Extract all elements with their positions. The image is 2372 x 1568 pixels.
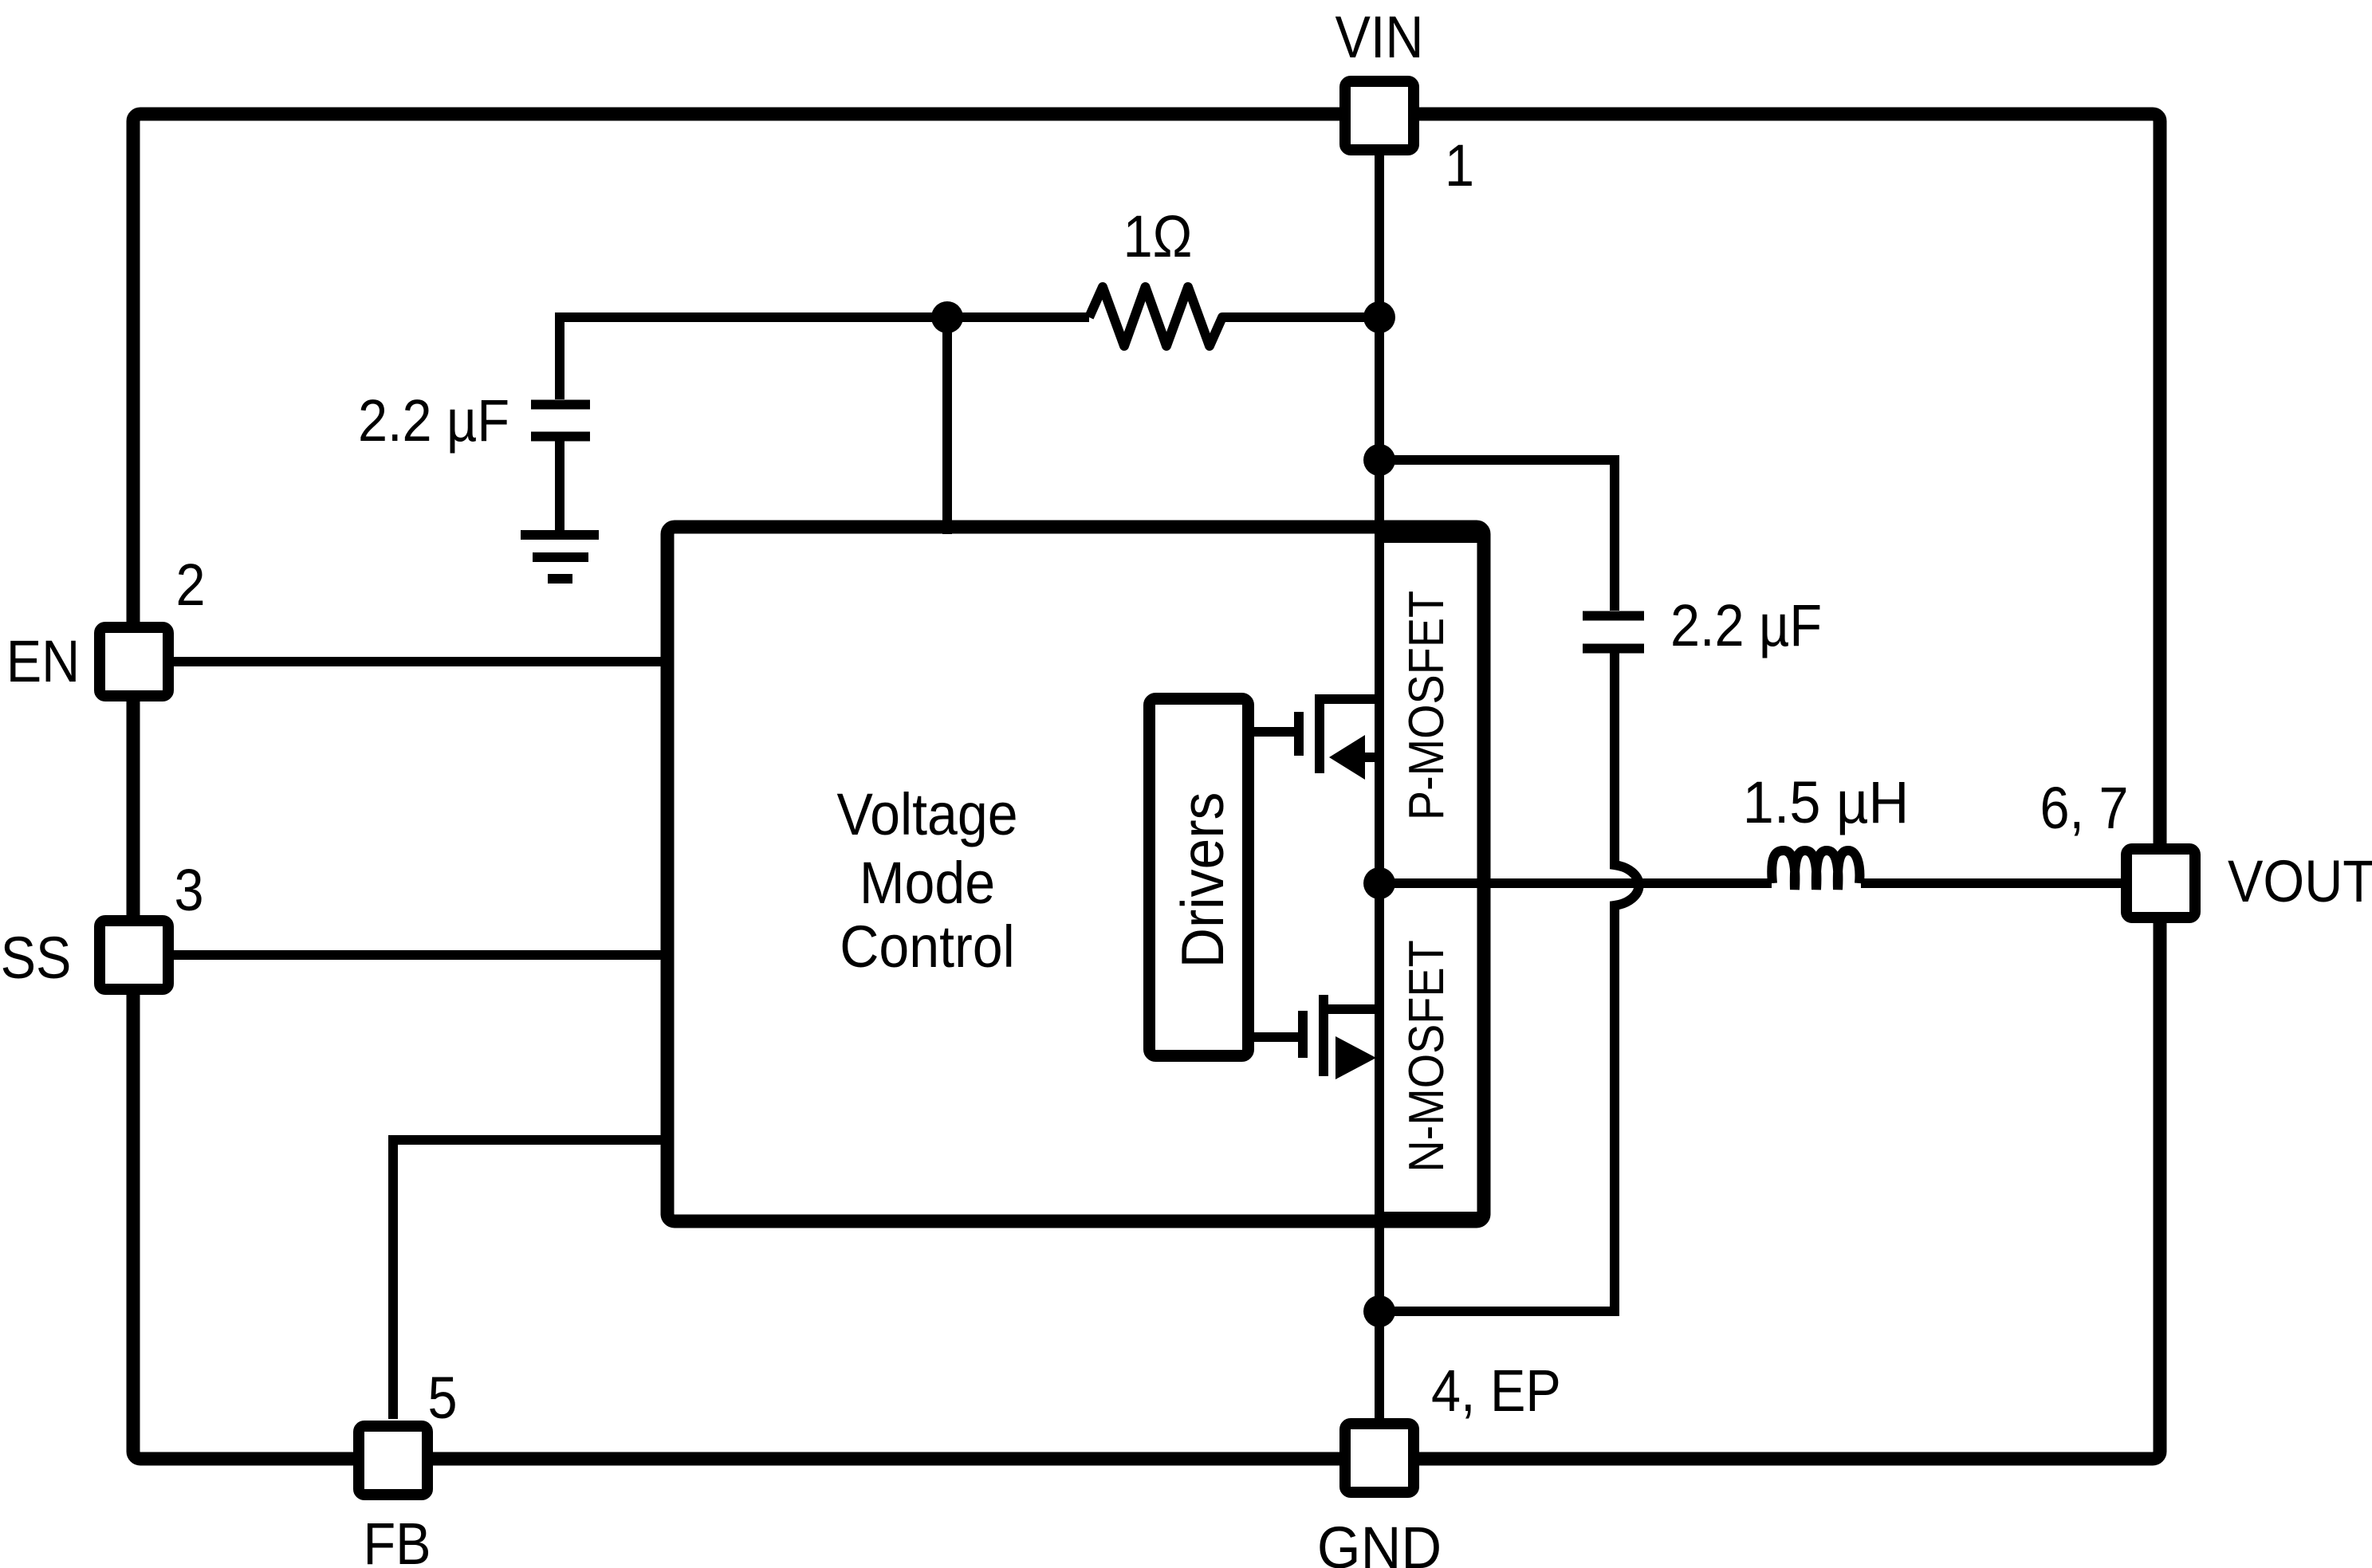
svg-text:FB: FB xyxy=(363,1511,431,1568)
wire cap C2 bottom with hop over SW line xyxy=(1379,648,1639,1311)
capacitor C1 2.2uF xyxy=(531,400,590,410)
pin SS square xyxy=(100,921,168,989)
svg-text:1: 1 xyxy=(1445,132,1474,198)
svg-text:Mode: Mode xyxy=(860,851,995,916)
wire node A down to control block xyxy=(942,317,952,534)
pin VOUT square xyxy=(2126,849,2195,918)
wire SW node to inductor xyxy=(1379,878,1772,888)
resistor R 1ohm xyxy=(1089,287,1379,346)
svg-text:1Ω: 1Ω xyxy=(1123,203,1193,269)
svg-text:5: 5 xyxy=(427,1365,457,1431)
wire cap C1 bottom lead xyxy=(555,436,564,535)
pin GND square xyxy=(1345,1424,1414,1492)
node B junction dot xyxy=(1363,301,1395,333)
pin EN square xyxy=(100,627,168,696)
svg-text:2.2 µF: 2.2 µF xyxy=(358,387,509,454)
inductor L1 1.5uH xyxy=(1772,851,1859,890)
svg-text:3: 3 xyxy=(174,857,203,923)
wire VIN net horizontal (cap C1 top to resistor to node B) xyxy=(560,312,1089,322)
inner MOSFET label box xyxy=(1379,538,1484,1216)
node SW junction dot xyxy=(1363,867,1395,899)
node A junction dot xyxy=(931,301,963,333)
wire VIN vertical main xyxy=(1375,155,1384,1419)
svg-text:EN: EN xyxy=(6,628,80,694)
svg-text:Drivers: Drivers xyxy=(1170,792,1237,969)
transistor Q2 N-MOSFET symbol xyxy=(1254,995,1379,1076)
svg-text:Control: Control xyxy=(840,914,1014,980)
outer rectangle border xyxy=(133,114,2160,1459)
svg-text:VIN: VIN xyxy=(1335,4,1424,70)
svg-text:GND: GND xyxy=(1317,1515,1442,1568)
wire SS to control block xyxy=(173,950,668,960)
wire node C to cap C2 xyxy=(1379,460,1615,611)
svg-text:P-MOSFET: P-MOSFET xyxy=(1399,591,1453,820)
block Voltage Mode Control U1 xyxy=(667,527,1484,1221)
svg-text:6, 7: 6, 7 xyxy=(2040,775,2128,841)
svg-text:4, EP: 4, EP xyxy=(1431,1358,1561,1424)
svg-text:2.2 µF: 2.2 µF xyxy=(1670,592,1822,658)
transistor Q1 P-MOSFET symbol xyxy=(1254,694,1379,773)
block Drivers xyxy=(1150,699,1249,1056)
pin FB square xyxy=(359,1426,427,1495)
wire FB to control block xyxy=(393,1140,668,1419)
wire EN to control block xyxy=(173,657,668,666)
node C junction dot xyxy=(1363,444,1395,476)
svg-text:N-MOSFET: N-MOSFET xyxy=(1399,940,1453,1172)
capacitor C2 2.2uF xyxy=(1583,611,1644,621)
svg-text:VOUT: VOUT xyxy=(2228,848,2372,914)
wire inductor to VOUT xyxy=(1861,878,2121,888)
pin VIN square xyxy=(1345,81,1414,150)
svg-text:SS: SS xyxy=(1,925,72,991)
ground symbol xyxy=(521,530,599,540)
node GND junction dot xyxy=(1363,1295,1395,1327)
svg-text:Voltage: Voltage xyxy=(836,782,1017,847)
svg-text:1.5 µH: 1.5 µH xyxy=(1743,770,1909,835)
svg-text:2: 2 xyxy=(175,552,205,618)
wire cap C1 top lead xyxy=(555,312,564,399)
